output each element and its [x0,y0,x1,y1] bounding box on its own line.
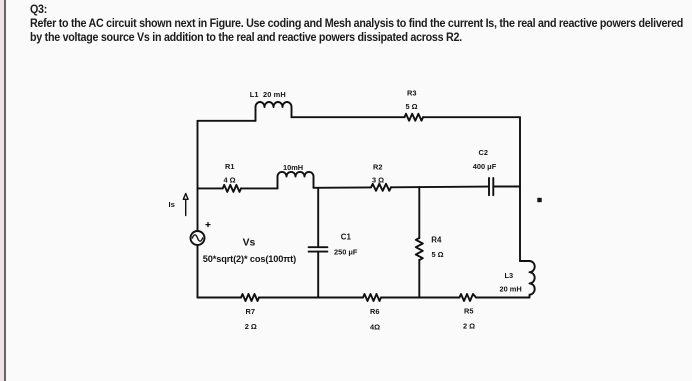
svg-text:R7: R7 [246,307,255,316]
wire top-middle segment [292,116,405,118]
svg-text:Vs: Vs [243,238,256,249]
svg-text:400 μF: 400 μF [473,162,497,171]
svg-text:4Ω: 4Ω [370,323,380,332]
svg-text:R6: R6 [370,307,379,316]
resistor R5 [460,294,478,301]
svg-text:L3: L3 [505,271,514,280]
wire C1 branch bottom [317,253,319,298]
wire bottom rail segment 2 [259,297,363,299]
svg-text:3 Ω: 3 Ω [372,175,384,184]
svg-text:50*sqrt(2)* cos(100πt): 50*sqrt(2)* cos(100πt) [203,254,296,264]
svg-text:R4: R4 [431,235,442,244]
inductor 10mH [278,172,314,188]
svg-text:5 Ω: 5 Ω [432,250,444,259]
svg-text:5 Ω: 5 Ω [406,102,418,111]
inductor L3 [520,261,535,298]
wire middle rail segment 3 [314,186,372,188]
label plus polarity [206,223,210,227]
wire C2 to right wall [493,186,520,188]
svg-text:20 mH: 20 mH [500,285,522,294]
svg-text:2 Ω: 2 Ω [245,322,257,331]
svg-text:C2: C2 [479,148,488,157]
wire middle rail left [198,187,223,189]
wire right wall upper [519,117,521,261]
svg-text:R3: R3 [407,89,416,98]
svg-text:250 μF: 250 μF [334,248,358,257]
svg-text:R1: R1 [225,162,234,171]
svg-text:Is: Is [169,200,175,209]
wire left wall lower [197,245,199,298]
capacitor C1 [309,247,328,251]
svg-text:R2: R2 [373,163,382,172]
wire middle rail segment 4 [391,186,489,189]
wire middle rail segment 2 [241,187,278,189]
node C1 branch top / wire [317,188,319,246]
svg-text:2 Ω: 2 Ω [463,322,475,331]
wire bottom rail segment 1 [198,297,242,299]
resistor R7 [241,294,259,301]
resistor R6 [363,294,381,301]
svg-text:10mH: 10mH [283,163,303,172]
wire R4 branch top [418,187,420,238]
wire left wall upper [197,121,199,231]
capacitor C2 [489,178,493,195]
svg-text:R5: R5 [464,307,473,316]
svg-text:4 Ω: 4 Ω [224,175,236,184]
inductor L1 [256,102,292,121]
resistor R1 [223,185,241,192]
current arrow Is [183,194,188,216]
resistor R3 [405,114,424,121]
wire R4 branch bottom [418,260,420,298]
node dot marker [537,198,541,202]
source Vs circle [191,231,205,245]
wire bottom rail segment 4 [478,297,525,299]
wire top-left segment [198,120,256,122]
resistor R4 [416,238,423,260]
source Vs sine [192,235,202,241]
svg-text:C1: C1 [341,233,352,242]
svg-text:L1 20 mH: L1 20 mH [250,90,286,99]
wire bottom rail segment 3 [381,297,460,299]
wire top-right segment [423,116,520,118]
resistor R2 [371,184,391,191]
